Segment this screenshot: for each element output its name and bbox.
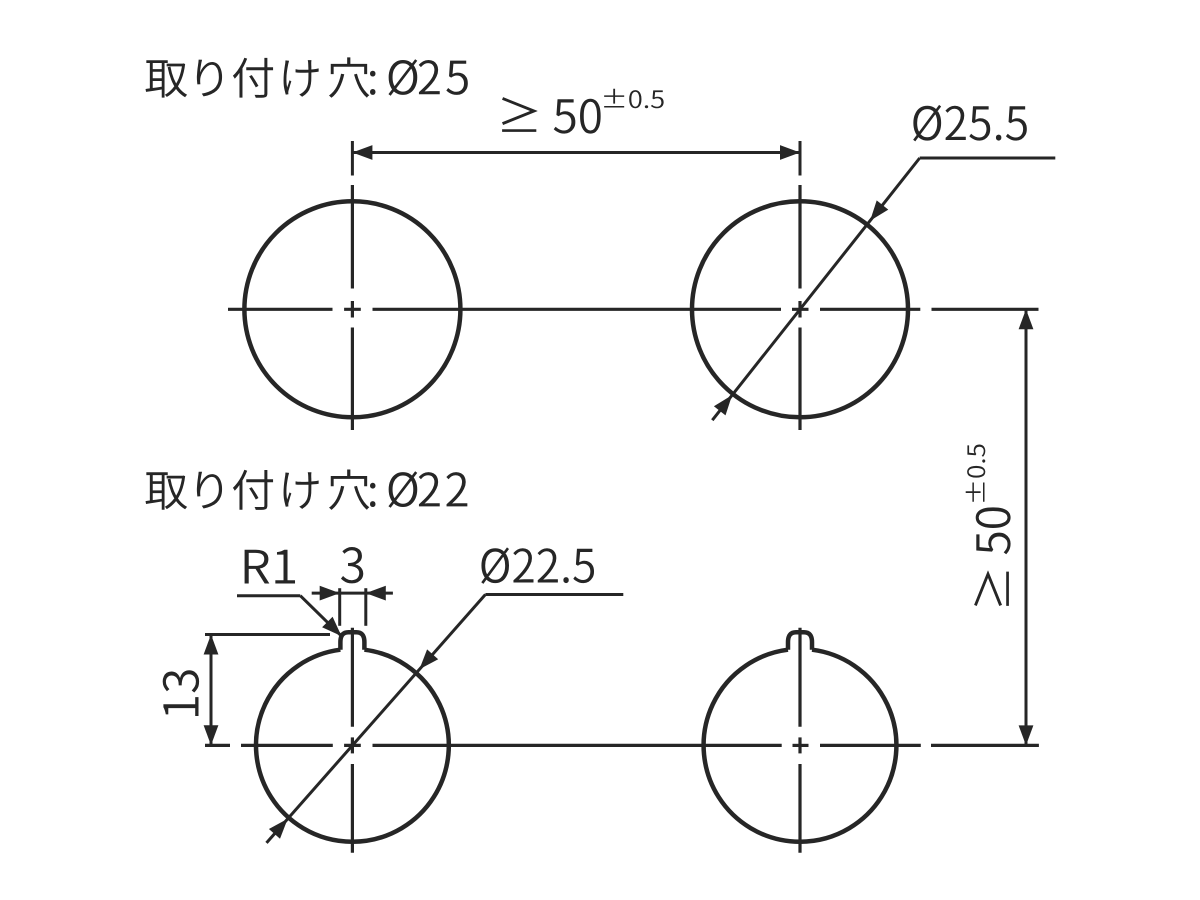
centerline vertical (top-right circle) [798,185,801,289]
centerline horizontal (bottom row) [205,744,230,747]
centerline vertical (top-left circle) [351,185,354,289]
leader diagonal Ø25.5 (diameter line) [712,158,919,420]
arrowhead R1 (points at keyway radius) [322,617,341,636]
centerline vertical (bottom-left circle) [351,628,354,727]
keyway bump bottom-left (R1 tab) [340,632,364,649]
vertical dimension line ≥50 (right) [1025,309,1028,745]
dimension tolerance ±0.5 (top, superscript) [604,89,664,109]
extension line left (top dimension) [351,141,354,176]
hole circle top-right (Ø25 mounting hole) [692,201,908,417]
hole circle bottom-left (Ø22 mounting hole, keyed) [256,650,449,842]
arrowhead on circle lower-left (Ø25.5) [714,395,732,415]
extension line right (top dimension) [799,141,802,176]
leader underline Ø22.5 [485,593,623,596]
label Ø22.5 [481,547,594,584]
arrowhead top (vertical dimension) [1019,309,1034,329]
dimension label ≥ 50 (vertical) [974,507,1011,606]
dimension tolerance ±0.5 (vertical, superscript) [966,445,986,502]
arrowhead keyway left (points right) [320,586,340,601]
dimension line ≥50 between hole centers [352,151,800,154]
centerline vertical (bottom-right circle) [798,628,801,727]
arrowhead on circle upper-right (Ø25.5) [870,200,888,220]
title: mounting hole Ø25 (取り付け穴: Ø25) [146,60,188,97]
arrowhead keyway right (points left) [366,586,386,601]
leader diagonal Ø22.5 (diameter line) [267,595,486,843]
label 13 (rotated) [163,670,199,716]
label Ø25.5 [913,105,1027,142]
arrowhead on circle upper-right (Ø22.5) [419,649,438,669]
arrowhead left (top dimension) [352,145,372,160]
hole circle bottom-right (Ø22 mounting hole, keyed) [704,650,897,842]
label R1 [245,550,295,584]
keyway bump bottom-right (R1 tab) [788,632,812,649]
arrowhead right (top dimension) [780,145,800,160]
hole circle top-left (Ø25 mounting hole) [244,201,460,417]
arrowhead 13 top (points up) [204,635,219,655]
arrowhead 13 bottom (points down) [204,725,219,745]
leader diagonal R1 [300,596,341,636]
leader underline R1 [237,594,300,597]
leader underline Ø25.5 [920,157,1056,160]
dimension line keyway width 3 [312,592,393,595]
arrowhead on circle lower-left (Ø22.5) [269,819,288,839]
dimension label ≥ 50 (top) [502,97,601,134]
extension lines keyway width [338,588,341,626]
dimension line 13 [210,635,213,746]
arrowhead bottom (vertical dimension) [1019,725,1034,745]
centerline horizontal (top row) [228,308,333,311]
label 3 (keyway width) [341,547,363,583]
title: mounting hole Ø22 (取り付け穴: Ø22) [146,472,188,509]
extension line keyway top (13 dimension) [205,633,330,636]
